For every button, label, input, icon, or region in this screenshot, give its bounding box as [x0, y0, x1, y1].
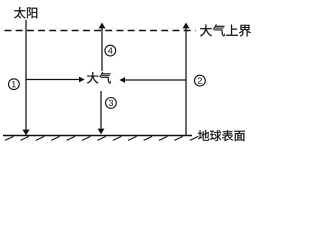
dashed line: top of atmosphere boundary [5, 30, 196, 32]
wire: ③ atmosphere counter-radiation down to ground with arrowhead [98, 91, 105, 134]
node ③ (circled 3) [106, 98, 117, 109]
ground surface line [3, 135, 192, 137]
wire: branch of solar radiation absorbed by atmosphere, arrow into 大气 [26, 77, 85, 83]
label 太阳 (Sun) [14, 7, 37, 18]
label 大气 (atmosphere) [87, 72, 111, 84]
wire: branch of ground radiation absorbed by atmosphere, arrow into 大气 [119, 77, 186, 83]
node ② (circled 2) [195, 75, 206, 86]
ground hatching marks [5, 136, 198, 140]
node ④ (circled 4) [105, 45, 116, 56]
wire: ④ atmosphere radiation upward to space, arrowhead poking above dashed line [99, 23, 106, 72]
label 大气上界 (top of atmosphere) [200, 24, 251, 36]
node ① (circled 1) [9, 79, 20, 90]
wire: solar radiation ① from 太阳 down to ground with arrowhead [22, 20, 29, 135]
wire: ② ground radiation from surface up to space, arrowhead poking above dashed line [183, 23, 190, 136]
label 地球表面 (Earth's surface) [198, 130, 245, 141]
